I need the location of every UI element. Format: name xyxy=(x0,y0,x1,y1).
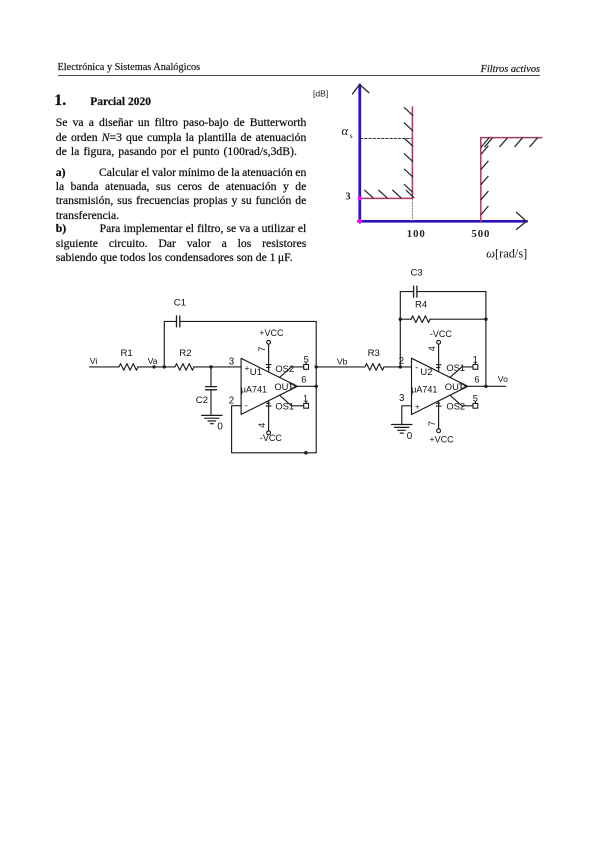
y-axis xyxy=(353,85,369,223)
paragraph b) xyxy=(56,222,307,236)
junction R4 left xyxy=(399,318,402,321)
+VCC symbol U1 xyxy=(259,328,284,371)
wire R3 to U2 pin2 xyxy=(384,366,411,368)
magenta node dots on axis xyxy=(358,196,362,200)
wire feedback right vertical xyxy=(485,292,487,387)
pin OS1 U2 xyxy=(446,362,477,378)
wire U1 pin2 feedback to bottom rail xyxy=(232,406,317,453)
wire C1 to output node xyxy=(180,320,316,322)
resistor R2 xyxy=(175,348,194,370)
svg-text:α: α xyxy=(342,124,349,138)
svg-text:5: 5 xyxy=(473,394,478,404)
svg-text:C1: C1 xyxy=(174,298,186,309)
svg-text:μA741: μA741 xyxy=(411,385,437,395)
node C2 junction xyxy=(209,365,212,368)
capacitor C1 xyxy=(174,298,186,327)
svg-text:-: - xyxy=(245,401,248,411)
junction OUT wire xyxy=(315,385,318,388)
svg-text:OS1: OS1 xyxy=(446,362,465,373)
svg-text:+VCC: +VCC xyxy=(429,435,454,445)
svg-text:4: 4 xyxy=(427,346,437,351)
hatching right template xyxy=(481,138,538,215)
svg-text:7: 7 xyxy=(427,421,437,426)
svg-text:U1: U1 xyxy=(250,367,262,378)
wire Vb xyxy=(316,366,365,368)
+VCC symbol U2 xyxy=(429,401,454,445)
svg-text:5: 5 xyxy=(304,355,309,365)
paragraph a) xyxy=(56,166,307,180)
svg-text:C3: C3 xyxy=(411,267,423,278)
wire C3 branch xyxy=(400,291,413,293)
template: vertical line at 100 xyxy=(411,107,413,199)
x-axis xyxy=(358,212,526,229)
-VCC symbol U2 xyxy=(430,329,452,371)
svg-text:0: 0 xyxy=(407,431,413,442)
node U2 pin2 junction xyxy=(399,365,402,368)
dashed alpha_s level line xyxy=(361,138,413,140)
svg-text:[dB]: [dB] xyxy=(313,89,328,99)
wire feedback left vertical xyxy=(399,292,401,367)
ground 0 (stage 2) xyxy=(392,425,413,442)
svg-text:+VCC: +VCC xyxy=(259,328,284,338)
svg-text:3: 3 xyxy=(345,192,350,203)
capacitor C3 xyxy=(411,267,423,297)
wire C1 branch up xyxy=(164,321,176,367)
svg-text:OS2: OS2 xyxy=(446,400,465,411)
template passband: horizontal line at 3dB xyxy=(360,197,413,199)
svg-text:-VCC: -VCC xyxy=(260,433,282,443)
-VCC symbol U1 xyxy=(260,401,282,443)
wire C2 to ground xyxy=(210,390,212,416)
paragraph 1 xyxy=(56,116,307,130)
header left xyxy=(58,62,201,73)
svg-text:R2: R2 xyxy=(179,348,191,359)
svg-text:0: 0 xyxy=(217,421,223,432)
svg-text:ω[rad/s]: ω[rad/s] xyxy=(486,246,527,260)
wire U2 pin3 to ground xyxy=(402,406,412,425)
svg-text:μA741: μA741 xyxy=(241,385,267,395)
pin OS1 U1 xyxy=(275,395,308,411)
wire C2 branch down xyxy=(210,367,212,387)
template stopband: vertical line at 500 xyxy=(480,138,482,222)
svg-text:R3: R3 xyxy=(368,348,380,359)
wire R1 to R2 xyxy=(138,366,175,368)
svg-text:3: 3 xyxy=(399,393,405,404)
svg-text:6: 6 xyxy=(301,375,306,385)
svg-text:500: 500 xyxy=(471,228,490,240)
svg-text:2: 2 xyxy=(399,356,404,367)
wire Vi to R1 xyxy=(90,366,120,368)
svg-text:100: 100 xyxy=(407,228,426,240)
hatching left template xyxy=(364,107,414,198)
svg-text:Va: Va xyxy=(148,356,158,366)
pin OS2 U1 xyxy=(275,362,308,377)
capacitor C2 xyxy=(196,387,217,407)
svg-text:OS1: OS1 xyxy=(275,400,294,411)
wire C3 to right vertical xyxy=(417,291,486,293)
svg-text:Vi: Vi xyxy=(90,356,98,366)
svg-text:6: 6 xyxy=(474,374,479,384)
svg-text:R4: R4 xyxy=(415,299,428,310)
junction Vb wire xyxy=(315,365,318,368)
svg-text:1: 1 xyxy=(473,355,478,365)
svg-text:C2: C2 xyxy=(196,395,208,406)
header right xyxy=(440,64,540,75)
wire output vertical node xyxy=(315,321,317,452)
svg-text:-VCC: -VCC xyxy=(430,329,452,339)
svg-text:4: 4 xyxy=(257,423,267,428)
svg-text:U2: U2 xyxy=(420,367,432,378)
svg-text:+: + xyxy=(415,403,420,412)
junction on bottom rail xyxy=(304,451,308,455)
wire R4 branch xyxy=(400,318,411,320)
template: horizontal line at alpha_s xyxy=(481,137,542,139)
junction R4 right xyxy=(484,318,487,321)
pin OUT U2 xyxy=(445,381,506,392)
svg-text:-: - xyxy=(415,363,418,373)
wire R4 to right vertical xyxy=(430,318,486,320)
pin OS2 U2 xyxy=(446,395,477,411)
svg-text:Vo: Vo xyxy=(498,374,508,384)
svg-text:3: 3 xyxy=(229,357,235,368)
section title xyxy=(54,92,66,110)
svg-text:7: 7 xyxy=(257,346,267,351)
svg-text:OS2: OS2 xyxy=(275,363,294,374)
op-amp U2 xyxy=(411,358,468,414)
op-amp U1 xyxy=(241,358,298,414)
wire R2 to U1 pin3 xyxy=(194,366,241,368)
resistor R3 xyxy=(365,348,384,370)
svg-text:1: 1 xyxy=(303,394,308,404)
ground 0 (stage 1) xyxy=(202,415,224,432)
pin OUT U1 xyxy=(274,381,316,392)
svg-text:s: s xyxy=(350,132,353,140)
dotted line at 100 down to axis xyxy=(411,199,413,221)
svg-text:2: 2 xyxy=(229,396,234,407)
svg-text:R1: R1 xyxy=(121,348,133,359)
header rule xyxy=(58,75,541,76)
junction C1 branch xyxy=(163,365,166,368)
junction output U2 xyxy=(484,385,487,388)
svg-text:Vb: Vb xyxy=(337,356,348,366)
resistor R4 xyxy=(411,299,430,322)
resistor R1 xyxy=(119,348,138,370)
